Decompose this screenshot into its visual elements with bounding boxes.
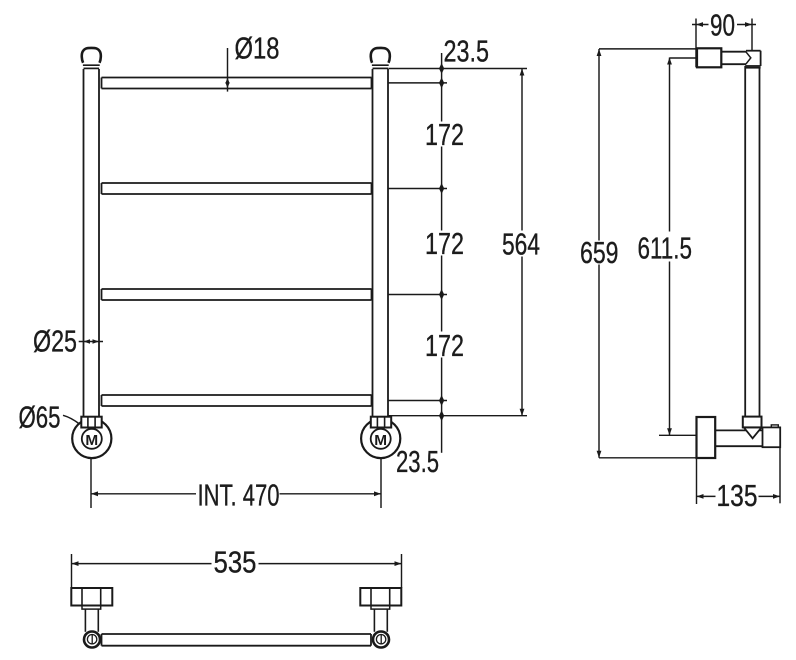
svg-text:172: 172 — [425, 328, 464, 363]
svg-text:564: 564 — [502, 227, 540, 262]
svg-text:Ø65: Ø65 — [19, 400, 61, 435]
svg-text:INT. 470: INT. 470 — [198, 478, 280, 513]
svg-text:23.5: 23.5 — [444, 33, 490, 68]
svg-text:172: 172 — [425, 226, 464, 261]
svg-text:M: M — [374, 432, 387, 449]
svg-text:Ø25: Ø25 — [33, 324, 77, 359]
svg-text:172: 172 — [425, 117, 464, 152]
svg-text:135: 135 — [717, 478, 758, 513]
svg-text:23.5: 23.5 — [396, 444, 439, 479]
svg-text:535: 535 — [214, 545, 257, 580]
svg-text:611.5: 611.5 — [638, 231, 693, 266]
svg-text:659: 659 — [580, 235, 619, 270]
svg-text:90: 90 — [710, 8, 735, 43]
svg-text:M: M — [85, 432, 98, 449]
svg-text:Ø18: Ø18 — [235, 31, 280, 66]
